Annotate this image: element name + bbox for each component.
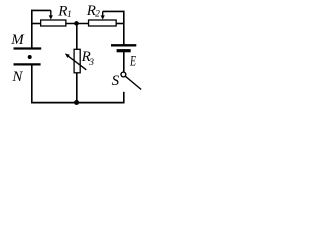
resistor R3 arrowhead [65, 53, 70, 58]
svg-text:S: S [112, 73, 120, 89]
svg-text:R: R [57, 3, 67, 19]
wire left rail lower (plate N down to bottom corner) [31, 65, 33, 103]
svg-text:3: 3 [88, 58, 94, 68]
wire left lead of R1 [31, 23, 40, 25]
resistor R2 arrow stem [102, 11, 104, 16]
wire middle branch lower (R3 down to bottom rail) [76, 73, 78, 103]
wire middle branch upper (junction down to R3) [76, 24, 78, 50]
resistor R1 body [41, 20, 66, 26]
wire between R1 and R2 [66, 23, 89, 25]
battery E short plate [117, 49, 131, 52]
svg-text:2: 2 [95, 9, 100, 19]
switch S pivot circle [121, 72, 126, 77]
wire right rail (top corner down to battery) [123, 11, 125, 45]
resistor R1 arrow stem [50, 10, 52, 16]
capacitor plate N [14, 63, 41, 65]
charged particle dot [28, 55, 32, 59]
svg-text:E: E [129, 54, 136, 70]
capacitor plate M [14, 47, 42, 49]
resistor R1 arrowhead [49, 15, 53, 19]
wire R2 wiper tail (top horizontal) [103, 10, 124, 12]
battery E long plate [111, 44, 136, 46]
wire battery to switch [123, 52, 125, 72]
svg-text:1: 1 [67, 10, 72, 20]
wire left rail upper (top corner down to plate M) [31, 10, 33, 48]
wire right lead of R2 [116, 23, 124, 25]
switch S lever [125, 76, 141, 89]
resistor R3 body [74, 49, 80, 73]
wire bottom rail [31, 102, 124, 104]
svg-text:M: M [10, 32, 25, 48]
node junction dot at bottom rail [74, 100, 79, 105]
wire R1 wiper tail (top horizontal) [32, 9, 51, 11]
node junction dot at resistor row [74, 21, 79, 26]
resistor R3 slanted arrow stem [68, 56, 86, 70]
resistor R2 body [89, 20, 117, 26]
wire switch lower terminal [123, 92, 125, 103]
svg-text:N: N [11, 69, 23, 85]
resistor R2 arrowhead [101, 15, 105, 19]
